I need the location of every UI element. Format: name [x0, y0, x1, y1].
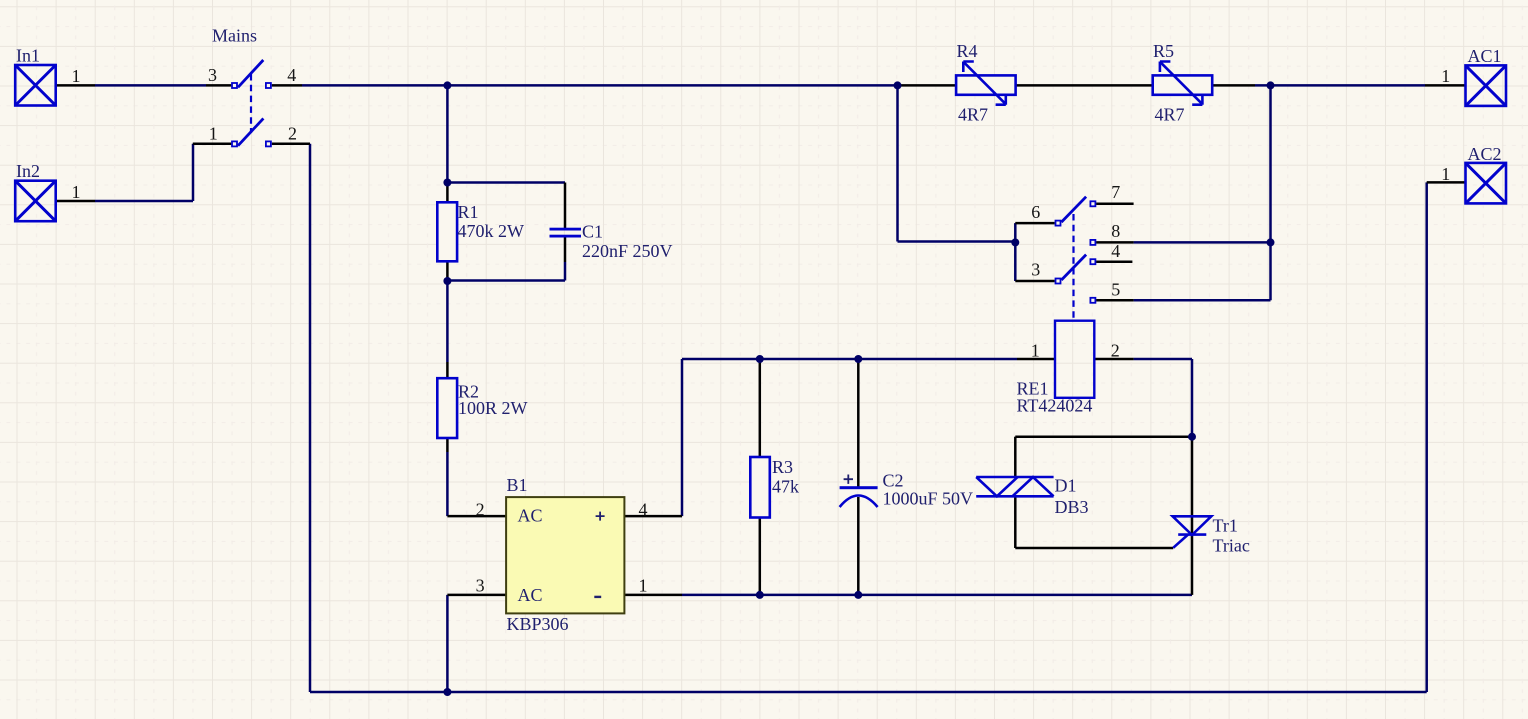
node R3 top	[756, 355, 764, 363]
pin B1.4	[624, 515, 682, 518]
wire vertical to R1	[446, 85, 449, 182]
svg-text:220nF 250V: 220nF 250V	[582, 241, 673, 261]
svg-text:C1: C1	[582, 221, 603, 241]
B1 minus sign	[594, 596, 601, 598]
pin R2.bottom	[446, 438, 449, 452]
connector AC2	[1466, 163, 1507, 204]
svg-text:In1: In1	[16, 45, 40, 65]
pin R5.right	[1212, 84, 1255, 87]
relay mechanical link dashed	[1072, 214, 1074, 320]
node top R1 branch	[443, 81, 451, 89]
svg-text:1: 1	[1441, 164, 1450, 184]
svg-text:1000uF 50V: 1000uF 50V	[883, 489, 974, 509]
Mains mechanical link dashed	[250, 74, 252, 133]
svg-text:2: 2	[1111, 341, 1120, 361]
pin AC1.1	[1425, 84, 1466, 87]
svg-text:5: 5	[1111, 280, 1120, 300]
svg-text:1: 1	[1441, 66, 1450, 86]
svg-text:Tr1: Tr1	[1213, 515, 1238, 535]
wire node to diac branch	[1015, 435, 1192, 438]
svg-text:C2: C2	[883, 470, 904, 490]
wire R2 to B1 pin2	[446, 452, 449, 516]
svg-text:Triac: Triac	[1213, 535, 1250, 555]
wire R1 bottom to C1 bottom	[447, 262, 565, 281]
svg-text:R1: R1	[458, 202, 479, 222]
wire relay contact 8 to right vertical	[1134, 241, 1271, 244]
diac D1	[976, 477, 1053, 496]
pin R4.right to R5.left	[1016, 84, 1153, 87]
pin Tr1.A2	[1191, 437, 1194, 533]
svg-text:2: 2	[476, 499, 485, 519]
svg-text:1: 1	[639, 576, 648, 596]
svg-text:4R7: 4R7	[1155, 104, 1185, 124]
node top R4 branch	[894, 81, 902, 89]
svg-text:Mains: Mains	[212, 26, 257, 46]
wire In2 to Mains pin1	[95, 144, 193, 201]
capacitor C1	[550, 228, 582, 238]
relay contact pole A	[1056, 197, 1096, 245]
wire RE1 pin2 to Tr1	[1134, 359, 1192, 437]
svg-text:3: 3	[1031, 260, 1040, 280]
bridge rectifier B1	[506, 497, 624, 613]
svg-text:1: 1	[209, 124, 218, 144]
svg-text:470k 2W: 470k 2W	[458, 221, 525, 241]
pin C2.bottom	[857, 497, 860, 595]
pin Mains.4	[272, 84, 302, 87]
wire B1 pin4 up and right to node	[682, 359, 1017, 516]
svg-text:R4: R4	[957, 41, 978, 61]
connector In1	[15, 65, 56, 106]
node contact8/right vertical	[1267, 238, 1275, 246]
pin C2.top	[857, 359, 860, 487]
pin relay contact 7	[1096, 203, 1134, 206]
node C2 top	[854, 355, 862, 363]
pin Mains.1	[193, 143, 232, 146]
svg-text:RT424024: RT424024	[1017, 396, 1093, 416]
connector In2	[15, 181, 56, 222]
wire Mains pin2 down	[309, 144, 312, 692]
svg-text:6: 6	[1031, 202, 1040, 222]
svg-text:4: 4	[287, 65, 296, 85]
svg-text:3: 3	[208, 65, 217, 85]
node top right vertical	[1267, 81, 1275, 89]
svg-text:4: 4	[639, 499, 648, 519]
pin R4.left	[898, 84, 957, 87]
svg-text:AC: AC	[518, 585, 543, 605]
svg-text:2: 2	[288, 123, 297, 143]
wire top net R5 to AC1	[1255, 84, 1425, 87]
pin AC2.1	[1427, 181, 1466, 184]
relay contact pole B	[1056, 255, 1096, 303]
pin relay contact 4	[1096, 260, 1132, 263]
wire relay contact 5 to right vertical	[1134, 299, 1271, 302]
svg-text:R3: R3	[772, 457, 793, 477]
svg-text:1: 1	[72, 66, 81, 86]
pin D1.bottom	[1014, 496, 1017, 548]
pin relay contact 8	[1096, 241, 1134, 244]
capacitor C2 electrolytic	[840, 475, 878, 508]
pin R3.bottom	[759, 518, 762, 595]
svg-text:1: 1	[72, 182, 81, 202]
pin Tr1.A1	[1191, 534, 1194, 595]
pin C1.top	[564, 183, 567, 229]
pin relay contact 6	[1015, 222, 1054, 225]
pin Mains.3	[206, 84, 231, 87]
node R3 bottom	[756, 591, 764, 599]
svg-text:AC2: AC2	[1468, 144, 1502, 164]
wire R1 to R2	[446, 281, 449, 362]
pin D1.top	[1014, 437, 1017, 477]
svg-text:100R 2W: 100R 2W	[458, 398, 528, 418]
wire top net Mains pin4 to R4 branch	[302, 84, 898, 87]
pin R3.top	[759, 359, 762, 457]
wire In1 to Mains	[95, 84, 206, 87]
node R1/C1 bottom	[443, 277, 451, 285]
pin B1.1	[624, 594, 682, 597]
pin Mains.2	[272, 143, 310, 146]
svg-text:8: 8	[1111, 221, 1120, 241]
resistor R3	[750, 457, 770, 518]
svg-text:3: 3	[476, 576, 485, 596]
svg-text:D1: D1	[1055, 476, 1077, 496]
svg-text:4: 4	[1111, 241, 1120, 261]
svg-text:KBP306: KBP306	[507, 614, 569, 634]
svg-text:DB3: DB3	[1055, 497, 1089, 517]
wire bottom net	[310, 691, 1427, 694]
wire R4 node down to relay common	[898, 85, 1016, 241]
connector AC1	[1466, 65, 1507, 106]
wire R1 top to C1 top	[447, 181, 565, 184]
triac Tr1	[1173, 516, 1212, 548]
node diac branch	[1188, 433, 1196, 441]
svg-text:7: 7	[1111, 182, 1120, 202]
wire AC2 down to bottom net	[1425, 182, 1428, 692]
variable resistor R5	[1153, 62, 1213, 105]
resistor R1	[437, 202, 457, 261]
switch Mains pole1	[232, 60, 271, 88]
pin B1.3	[447, 594, 506, 597]
node R1/C1 top	[443, 179, 451, 187]
pin R1.bottom	[446, 261, 449, 281]
svg-text:47k: 47k	[772, 476, 799, 496]
relay coil RE1	[1055, 321, 1094, 398]
svg-text:AC1: AC1	[1468, 46, 1502, 66]
wire B1 pin1 net	[682, 594, 1192, 597]
wire B1 pin3 down to bottom net	[446, 595, 449, 692]
node relay common	[1011, 238, 1019, 246]
node bottom net B1 branch	[443, 688, 451, 696]
pin RE1.2	[1094, 358, 1133, 361]
switch Mains pole2	[232, 118, 271, 146]
node C2 bottom	[854, 591, 862, 599]
pin C1.bottom	[564, 238, 567, 263]
svg-text:R5: R5	[1153, 41, 1174, 61]
pin RE1.1	[1017, 358, 1055, 361]
pin relay contact 5	[1096, 299, 1134, 302]
svg-text:B1: B1	[507, 475, 528, 495]
pin relay contact 3	[1015, 280, 1054, 283]
pin R1.top	[446, 183, 449, 203]
pin In2.1	[56, 200, 95, 203]
pin R2.top	[446, 362, 449, 378]
pin In1.1	[56, 84, 95, 87]
wire right vertical contact net	[1269, 85, 1272, 300]
variable resistor R4	[956, 62, 1016, 105]
svg-text:1: 1	[1031, 341, 1040, 361]
B1 plus sign	[596, 512, 605, 521]
pin B1.2	[447, 515, 506, 518]
wire relay common branch vertical	[1014, 223, 1017, 281]
wire gate to Tr1	[1015, 547, 1173, 550]
svg-text:4R7: 4R7	[958, 104, 988, 124]
svg-text:In2: In2	[16, 161, 40, 181]
svg-text:AC: AC	[518, 505, 543, 525]
resistor R2	[437, 378, 457, 438]
